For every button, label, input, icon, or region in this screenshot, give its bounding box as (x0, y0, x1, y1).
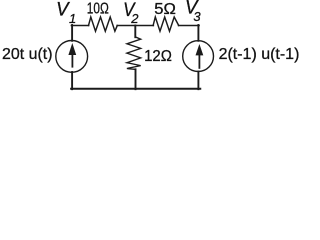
svg-text:5Ω: 5Ω (154, 1, 176, 18)
svg-text:3: 3 (193, 9, 201, 24)
svg-text:1: 1 (69, 11, 76, 26)
wire middle branch lower (135, 69, 137, 89)
svg-text:2(t-1) u(t-1): 2(t-1) u(t-1) (219, 46, 300, 63)
wire right branch lower (197, 72, 199, 90)
wire right branch upper (197, 25, 199, 41)
svg-text:20t u(t): 20t u(t) (2, 46, 53, 63)
wire left branch upper (71, 25, 73, 41)
resistor R3 12ohm (127, 37, 141, 70)
resistor R1 10ohm (89, 17, 118, 31)
arrow of current source I1 (68, 43, 76, 68)
wire top middle (V2 node span) (117, 25, 153, 27)
wire top left (V1 node to 10ohm) (71, 25, 88, 27)
wire middle branch upper (V2 down to 12ohm) (134, 26, 136, 38)
svg-text:2: 2 (130, 11, 139, 26)
svg-text:10Ω: 10Ω (87, 0, 109, 17)
node label V2 (123, 0, 139, 26)
wire left branch lower (71, 72, 73, 89)
svg-text:12Ω: 12Ω (144, 48, 172, 65)
node label V3 (185, 0, 201, 24)
current source I1 circle (56, 41, 88, 73)
wire top right (5ohm to V3 corner) (179, 25, 200, 27)
node label V1 (56, 0, 76, 26)
arrow of current source I2 (196, 44, 204, 69)
resistor R2 5ohm (153, 17, 179, 31)
current source I2 circle (183, 41, 214, 72)
wire bottom rail (71, 88, 200, 90)
